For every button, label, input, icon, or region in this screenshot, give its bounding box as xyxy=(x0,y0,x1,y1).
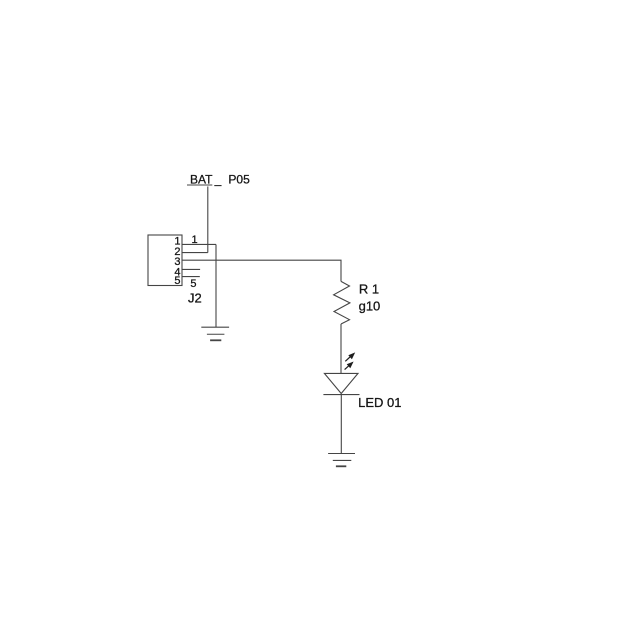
net label underline xyxy=(187,184,212,186)
svg-text:5: 5 xyxy=(190,278,196,290)
LED light arrow lower xyxy=(345,362,354,370)
wire LED to ground xyxy=(340,395,342,454)
ground under LED xyxy=(328,454,355,467)
net label BAT _ P05 xyxy=(190,172,250,186)
resistor R1 xyxy=(334,281,350,324)
pin 3 stub / wire to resistor xyxy=(182,260,341,281)
LED light arrow upper xyxy=(345,352,355,361)
wire resistor to LED xyxy=(340,324,342,373)
pin 2 stub xyxy=(182,252,208,254)
LED cathode bar xyxy=(323,394,359,396)
svg-text:BAT: BAT xyxy=(190,172,213,186)
svg-text:_: _ xyxy=(214,172,222,186)
wire BAT_P05 to pin 2 xyxy=(207,187,209,253)
pin 1 stub xyxy=(182,243,216,245)
svg-text:1: 1 xyxy=(192,234,198,246)
svg-text:g10: g10 xyxy=(359,299,381,314)
svg-text:J2: J2 xyxy=(188,291,202,306)
LED 01 triangle xyxy=(324,373,358,393)
wire pin 1 to ground xyxy=(215,244,217,327)
svg-text:P05: P05 xyxy=(228,172,250,186)
connector J2 body xyxy=(148,235,182,286)
pin 5 stub xyxy=(182,276,200,278)
svg-text:LED 01: LED 01 xyxy=(358,395,401,410)
pin 4 stub xyxy=(182,268,200,270)
svg-text:5: 5 xyxy=(174,275,180,287)
ground under J2 xyxy=(201,327,229,340)
svg-text:R 1: R 1 xyxy=(359,282,379,297)
